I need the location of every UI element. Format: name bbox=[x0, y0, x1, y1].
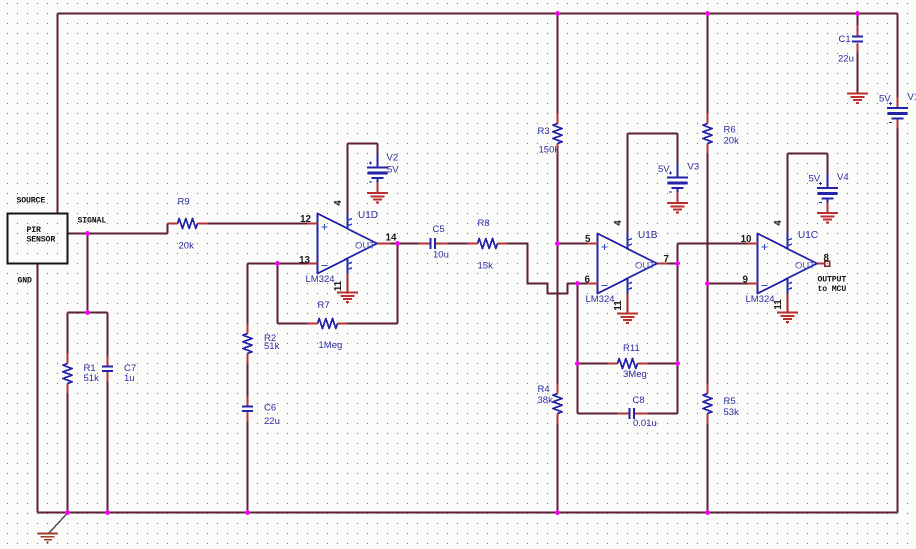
svg-text:5V: 5V bbox=[658, 164, 670, 175]
svg-text:SOURCE: SOURCE bbox=[17, 197, 46, 206]
svg-text:LM324: LM324 bbox=[746, 294, 775, 305]
svg-text:R6: R6 bbox=[724, 125, 736, 136]
svg-text:38k: 38k bbox=[538, 395, 554, 406]
svg-text:V1: V1 bbox=[908, 92, 916, 103]
svg-text:53k: 53k bbox=[724, 407, 740, 418]
svg-text:8: 8 bbox=[824, 253, 830, 264]
svg-text:LM324: LM324 bbox=[586, 294, 615, 305]
svg-text:OUT: OUT bbox=[355, 241, 375, 252]
svg-text:R4: R4 bbox=[538, 384, 550, 395]
svg-text:V4: V4 bbox=[837, 172, 849, 183]
svg-text:5: 5 bbox=[585, 234, 591, 245]
svg-text:R11: R11 bbox=[623, 343, 640, 354]
svg-text:C8: C8 bbox=[633, 395, 645, 406]
svg-text:OUTPUT: OUTPUT bbox=[818, 276, 847, 285]
svg-text:R9: R9 bbox=[178, 197, 190, 208]
svg-text:51k: 51k bbox=[84, 373, 100, 384]
svg-text:15k: 15k bbox=[478, 261, 494, 272]
svg-text:1Meg: 1Meg bbox=[319, 340, 343, 351]
svg-text:C5: C5 bbox=[433, 224, 445, 235]
svg-text:C6: C6 bbox=[264, 403, 276, 414]
svg-text:1u: 1u bbox=[124, 373, 135, 384]
svg-text:22u: 22u bbox=[264, 416, 280, 427]
svg-text:0.01u: 0.01u bbox=[633, 418, 657, 429]
svg-text:12: 12 bbox=[300, 214, 311, 225]
svg-text:5V: 5V bbox=[809, 174, 821, 185]
svg-text:SENSOR: SENSOR bbox=[27, 236, 56, 245]
svg-text:to MCU: to MCU bbox=[818, 285, 847, 294]
svg-text:R7: R7 bbox=[318, 300, 330, 311]
svg-text:10: 10 bbox=[741, 234, 752, 245]
svg-text:V2: V2 bbox=[387, 153, 399, 164]
svg-text:20k: 20k bbox=[179, 241, 195, 252]
svg-text:150k: 150k bbox=[539, 145, 560, 156]
svg-text:R8: R8 bbox=[478, 218, 490, 229]
svg-text:3Meg: 3Meg bbox=[623, 369, 647, 380]
svg-text:PIR: PIR bbox=[27, 226, 42, 235]
svg-text:11: 11 bbox=[613, 300, 624, 311]
svg-text:OUT: OUT bbox=[795, 261, 815, 272]
svg-text:U1B: U1B bbox=[638, 230, 658, 241]
svg-text:5V: 5V bbox=[879, 94, 891, 105]
svg-text:U1C: U1C bbox=[798, 230, 818, 241]
svg-text:4: 4 bbox=[773, 220, 784, 226]
svg-text:SIGNAL: SIGNAL bbox=[78, 217, 107, 226]
svg-text:22u: 22u bbox=[838, 54, 854, 65]
svg-text:LM324: LM324 bbox=[306, 274, 335, 285]
svg-text:10u: 10u bbox=[433, 250, 449, 261]
svg-text:20k: 20k bbox=[724, 136, 740, 147]
svg-text:U1D: U1D bbox=[358, 210, 378, 221]
svg-text:9: 9 bbox=[743, 275, 749, 286]
svg-text:V3: V3 bbox=[688, 162, 700, 173]
svg-text:5V: 5V bbox=[387, 165, 399, 176]
svg-text:R3: R3 bbox=[538, 126, 550, 137]
svg-text:7: 7 bbox=[664, 254, 670, 265]
svg-text:R5: R5 bbox=[724, 396, 736, 407]
svg-text:51k: 51k bbox=[264, 341, 280, 352]
svg-text:11: 11 bbox=[333, 280, 344, 291]
svg-text:11: 11 bbox=[773, 299, 784, 310]
svg-text:C1: C1 bbox=[839, 34, 851, 45]
svg-text:4: 4 bbox=[613, 220, 624, 226]
svg-text:OUT: OUT bbox=[635, 261, 655, 272]
svg-text:13: 13 bbox=[299, 255, 310, 266]
svg-text:14: 14 bbox=[386, 233, 397, 244]
svg-text:GND: GND bbox=[18, 277, 33, 286]
svg-text:4: 4 bbox=[333, 200, 344, 206]
svg-text:6: 6 bbox=[585, 275, 591, 286]
